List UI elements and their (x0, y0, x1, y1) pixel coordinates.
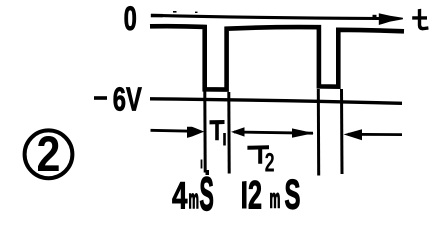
svg-text:S: S (285, 172, 301, 219)
svg-text:2: 2 (37, 126, 61, 182)
svg-text:0: 0 (124, 0, 137, 38)
svg-text:2: 2 (248, 174, 262, 218)
svg-text:m: m (189, 186, 199, 214)
svg-text:S: S (200, 168, 214, 220)
svg-text:2: 2 (265, 147, 275, 177)
svg-text:4: 4 (172, 175, 188, 217)
svg-text:m: m (270, 186, 281, 214)
svg-text:6V: 6V (113, 82, 142, 119)
